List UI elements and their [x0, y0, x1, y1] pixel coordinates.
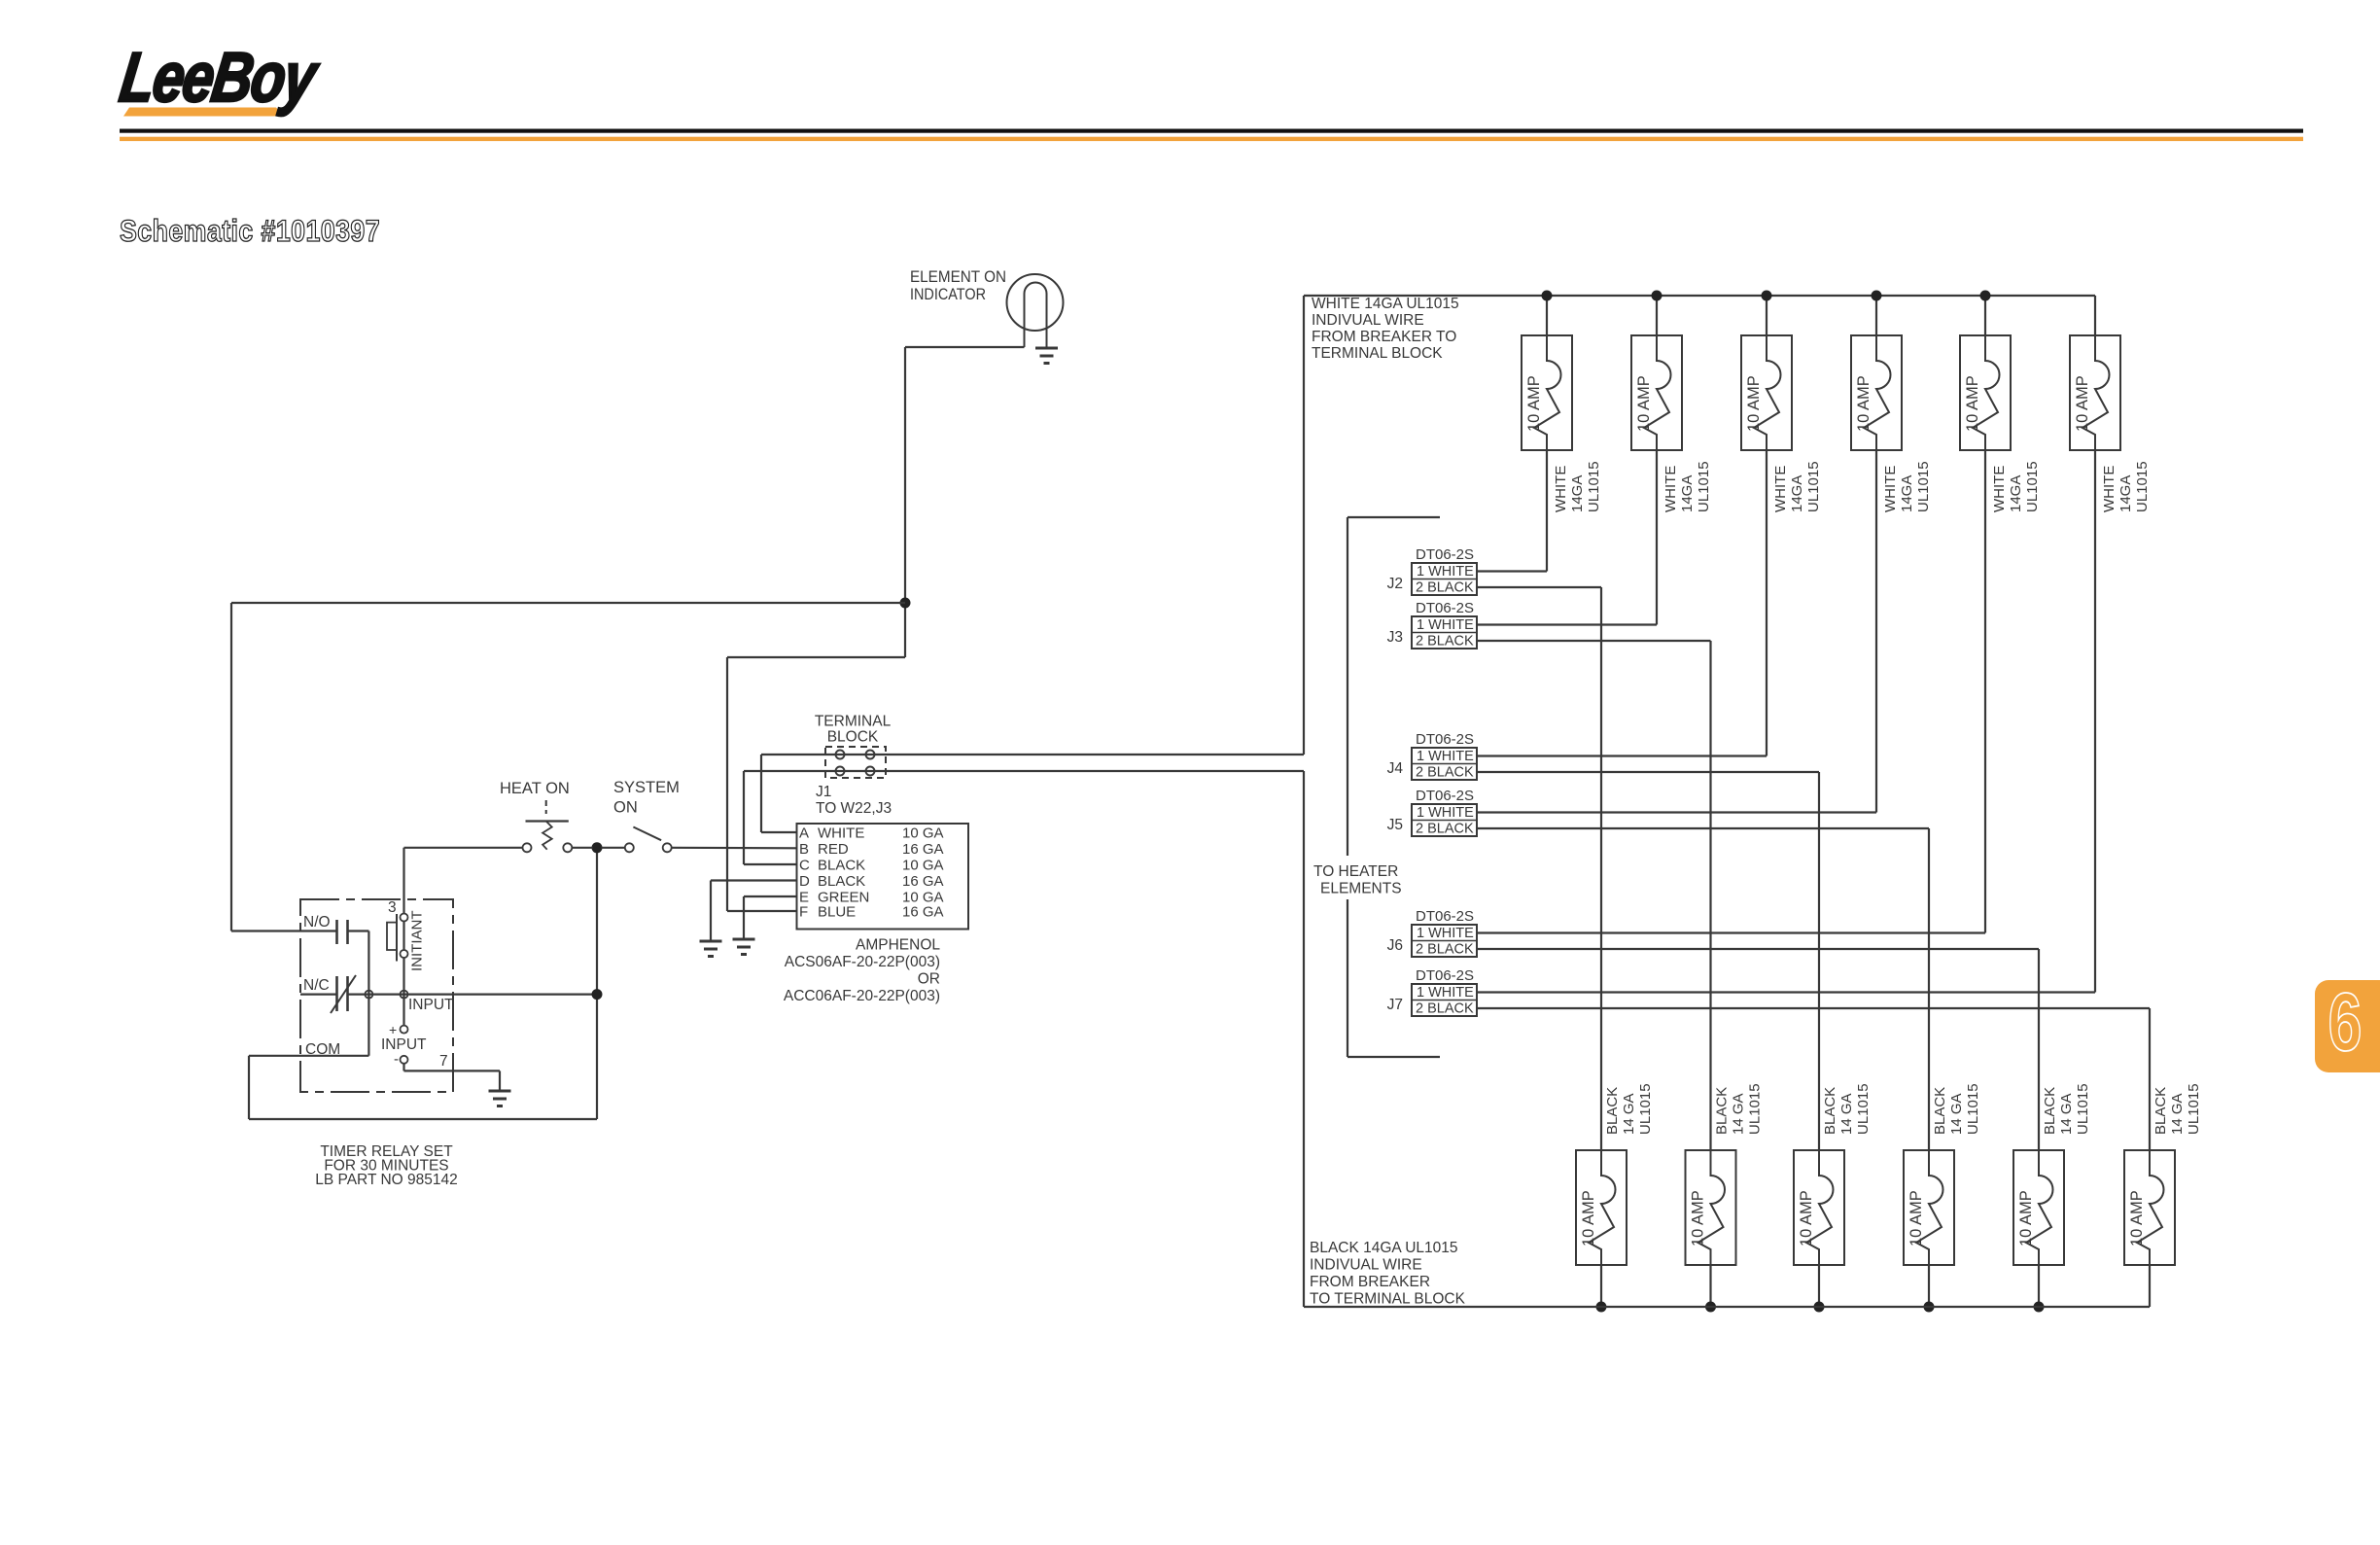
svg-text:16 GA: 16 GA	[902, 904, 944, 921]
svg-text:10 AMP: 10 AMP	[1525, 375, 1543, 432]
svg-text:WHITE: WHITE	[2101, 466, 2117, 512]
svg-text:J2: J2	[1387, 576, 1403, 592]
svg-text:LeeBoy: LeeBoy	[116, 38, 324, 116]
wire J5 pin2 horizontal	[1477, 827, 1929, 829]
svg-text:1 WHITE: 1 WHITE	[1417, 749, 1474, 764]
wire CB9 to black bus	[1818, 1265, 1820, 1307]
svg-text:10 AMP: 10 AMP	[1580, 1190, 1597, 1247]
svg-text:UL1015: UL1015	[1915, 461, 1932, 512]
contact N/O	[335, 920, 338, 944]
wire pin D	[711, 879, 797, 881]
wire CB5 down to J6 pin1	[1984, 450, 1986, 933]
connector J7 DT06-2S	[1387, 967, 1477, 1017]
svg-text:WHITE 14GA UL1015: WHITE 14GA UL1015	[1312, 296, 1459, 312]
wire white top bus	[1304, 295, 2095, 297]
svg-text:WHITE: WHITE	[1662, 466, 1679, 512]
breaker CB8 10 AMP (black)	[1686, 1150, 1736, 1265]
LeeBoy logo swoosh	[123, 108, 284, 117]
node bus CB4	[1872, 291, 1882, 301]
page tab 6	[2315, 980, 2380, 1072]
breaker CB7 10 AMP (black)	[1576, 1150, 1627, 1265]
svg-text:WHITE: WHITE	[1772, 466, 1789, 512]
svg-text:J1: J1	[816, 784, 831, 800]
wire CB2 down to J3 pin1	[1656, 450, 1658, 625]
N/C slash	[331, 975, 356, 1013]
wire J2 pin1 horizontal	[1477, 570, 1547, 572]
wire heat-on left	[404, 847, 523, 849]
wire bus to CB3	[1766, 296, 1767, 335]
svg-text:INDIVUAL WIRE: INDIVUAL WIRE	[1312, 312, 1424, 329]
svg-text:BLACK 14GA UL1015: BLACK 14GA UL1015	[1310, 1240, 1458, 1256]
header orange rule	[120, 137, 2303, 141]
breaker CB10 10 AMP (black)	[1904, 1150, 1954, 1265]
svg-text:UL1015: UL1015	[1855, 1083, 1872, 1135]
wire J3 pin2 horizontal	[1477, 640, 1711, 642]
svg-text:10 AMP: 10 AMP	[1798, 1190, 1815, 1247]
wire lamp to vertical	[905, 346, 1025, 348]
svg-text:10 AMP: 10 AMP	[1855, 375, 1872, 432]
wire J4 pin1 horizontal	[1477, 755, 1767, 756]
node bus CB3	[1762, 291, 1772, 301]
junction circle INPUT pin	[401, 991, 408, 999]
svg-text:J6: J6	[1387, 937, 1403, 954]
svg-text:INDIVUAL WIRE: INDIVUAL WIRE	[1310, 1257, 1422, 1274]
node black bus CB11	[2034, 1302, 2045, 1313]
svg-text:ELEMENT ON: ELEMENT ON	[910, 268, 1006, 286]
svg-text:DT06-2S: DT06-2S	[1416, 731, 1474, 748]
wire white bus left drop	[1303, 296, 1305, 755]
svg-text:1 WHITE: 1 WHITE	[1417, 985, 1474, 1001]
svg-text:DT06-2S: DT06-2S	[1416, 600, 1474, 616]
wire tb to pin C	[743, 771, 745, 864]
wire J6 pin2 horizontal	[1477, 948, 2039, 950]
wire left vertical x238	[230, 603, 232, 931]
svg-text:C: C	[799, 858, 810, 874]
svg-text:DT06-2S: DT06-2S	[1416, 546, 1474, 563]
svg-text:B: B	[799, 841, 809, 858]
wire vertical x931	[904, 347, 906, 657]
wire to pin F	[727, 910, 797, 912]
svg-text:UL1015: UL1015	[1965, 1083, 1981, 1135]
breaker CB11 10 AMP (black)	[2013, 1150, 2064, 1265]
svg-text:10 GA: 10 GA	[902, 858, 944, 874]
svg-text:LB PART NO 985142: LB PART NO 985142	[315, 1172, 457, 1188]
svg-text:2 BLACK: 2 BLACK	[1416, 942, 1474, 958]
wire CB10 to black bus	[1928, 1265, 1930, 1307]
svg-text:ON: ON	[613, 799, 638, 817]
wire J2 pin2 down to CB7	[1600, 587, 1602, 1150]
wire J7 pin1 horizontal	[1477, 991, 2095, 993]
wire COM row	[249, 1055, 368, 1057]
svg-text:INITIANT: INITIANT	[409, 911, 426, 972]
svg-text:J5: J5	[1387, 817, 1403, 833]
wire J3 pin2 down to CB8	[1709, 641, 1711, 1150]
node bus CB1	[1542, 291, 1553, 301]
svg-text:SYSTEM: SYSTEM	[613, 779, 680, 796]
tb pin	[866, 767, 875, 776]
switch blade	[633, 827, 661, 841]
wire CB6 down to J7 pin1	[2094, 450, 2096, 993]
svg-text:14 GA: 14 GA	[1621, 1093, 1637, 1135]
svg-text:BLACK: BLACK	[1714, 1087, 1731, 1135]
svg-text:1 WHITE: 1 WHITE	[1417, 926, 1474, 941]
svg-text:14GA: 14GA	[1679, 475, 1696, 512]
svg-text:BLACK: BLACK	[818, 873, 865, 890]
breaker CB6 10 AMP (white)	[2070, 335, 2120, 450]
breaker CB1 10 AMP (white)	[1522, 335, 1572, 450]
node black bus CB9	[1814, 1302, 1825, 1313]
wire node to system-on	[602, 847, 625, 849]
wire CB1 down to J2 pin1	[1546, 450, 1548, 572]
svg-text:7: 7	[439, 1053, 448, 1070]
breaker CB4 10 AMP (white)	[1851, 335, 1902, 450]
wire CB3 down to J4 pin1	[1766, 450, 1767, 756]
svg-text:UL1015: UL1015	[1747, 1083, 1764, 1135]
wire vertical x614	[596, 848, 598, 1119]
svg-text:BLOCK: BLOCK	[827, 729, 879, 746]
svg-text:14GA: 14GA	[2117, 475, 2134, 512]
connector J3 DT06-2S	[1387, 600, 1477, 650]
svg-text:UL1015: UL1015	[2134, 461, 2151, 512]
wire long horizontal y620	[231, 602, 905, 604]
svg-text:BLACK: BLACK	[1822, 1087, 1838, 1135]
svg-text:TERMINAL: TERMINAL	[815, 714, 892, 730]
wire J6 pin2 down to CB11	[2038, 949, 2040, 1150]
wire to N/O	[231, 930, 337, 931]
svg-text:DT06-2S: DT06-2S	[1416, 908, 1474, 925]
tb pin	[836, 767, 845, 776]
svg-text:BLACK: BLACK	[2042, 1087, 2058, 1135]
svg-text:2 BLACK: 2 BLACK	[1416, 765, 1474, 781]
svg-text:10 AMP: 10 AMP	[1964, 375, 1981, 432]
header black rule	[120, 129, 2303, 133]
wire bus to CB1	[1546, 296, 1548, 335]
svg-text:TO TERMINAL BLOCK: TO TERMINAL BLOCK	[1310, 1291, 1466, 1308]
wire black bottom bus	[1304, 1306, 2150, 1308]
wire bus to CB5	[1984, 296, 1986, 335]
wire N/C left stub	[300, 993, 337, 995]
wire black tb row	[744, 770, 1304, 772]
svg-text:Schematic #1010397: Schematic #1010397	[120, 215, 380, 248]
svg-text:UL1015: UL1015	[1637, 1083, 1654, 1135]
svg-text:BLACK: BLACK	[1932, 1087, 1948, 1135]
svg-text:DT06-2S: DT06-2S	[1416, 788, 1474, 804]
wire bus to CB4	[1875, 296, 1877, 335]
svg-text:RED: RED	[818, 841, 849, 858]
bracket TO HEATER ELEMENTS	[1347, 517, 1348, 856]
wire CB4 down to J5 pin1	[1875, 450, 1877, 813]
ground relay	[489, 1091, 511, 1106]
connector J6 DT06-2S	[1387, 908, 1477, 958]
svg-text:14GA: 14GA	[1569, 475, 1586, 512]
svg-text:TO HEATER: TO HEATER	[1313, 863, 1398, 880]
svg-text:DT06-2S: DT06-2S	[1416, 967, 1474, 984]
svg-text:BLACK: BLACK	[1604, 1087, 1621, 1135]
svg-text:10 GA: 10 GA	[902, 825, 944, 842]
svg-text:TERMINAL BLOCK: TERMINAL BLOCK	[1312, 345, 1443, 362]
wire bus to CB2	[1656, 296, 1658, 335]
wire J7 pin2 horizontal	[1477, 1007, 2150, 1009]
svg-text:16 GA: 16 GA	[902, 873, 944, 890]
svg-text:ELEMENTS: ELEMENTS	[1320, 881, 1402, 897]
svg-text:INPUT: INPUT	[408, 997, 454, 1013]
svg-text:FROM BREAKER TO: FROM BREAKER TO	[1312, 329, 1456, 345]
svg-text:14 GA: 14 GA	[1948, 1093, 1965, 1135]
svg-text:N/O: N/O	[303, 914, 331, 931]
svg-text:2 BLACK: 2 BLACK	[1416, 822, 1474, 837]
breaker CB3 10 AMP (white)	[1741, 335, 1792, 450]
wire J4 pin2 down to CB9	[1818, 772, 1820, 1150]
tb pin	[866, 751, 875, 759]
svg-text:10 AMP: 10 AMP	[1745, 375, 1763, 432]
svg-text:10 AMP: 10 AMP	[1635, 375, 1653, 432]
node black bus CB7	[1596, 1302, 1607, 1313]
junction circle on common	[365, 991, 372, 999]
connector J4 DT06-2S	[1387, 731, 1477, 781]
svg-text:N/C: N/C	[303, 977, 330, 994]
svg-text:UL1015: UL1015	[2024, 461, 2041, 512]
wire N/C row to node	[348, 993, 598, 995]
svg-text:14GA: 14GA	[1789, 475, 1805, 512]
svg-text:14 GA: 14 GA	[2169, 1093, 2186, 1135]
svg-text:WHITE: WHITE	[1553, 466, 1569, 512]
svg-text:6: 6	[2327, 976, 2362, 1068]
wire white tb row	[761, 754, 1304, 755]
svg-text:ACC06AF-20-22P(003): ACC06AF-20-22P(003)	[784, 988, 940, 1004]
node black bus CB8	[1705, 1302, 1716, 1313]
wire bus to CB6	[2094, 296, 2096, 335]
svg-text:14 GA: 14 GA	[2058, 1093, 2075, 1135]
contact N/C	[335, 976, 338, 1011]
node system-on junction	[592, 842, 603, 853]
wire black bus left riser	[1303, 771, 1305, 1307]
svg-text:J7: J7	[1387, 997, 1403, 1013]
svg-text:10 AMP: 10 AMP	[2128, 1190, 2146, 1247]
wire J5 pin2 down to CB10	[1928, 828, 1930, 1150]
wire CB8 to black bus	[1709, 1265, 1711, 1307]
node input junction	[592, 989, 603, 1000]
svg-text:D: D	[799, 873, 810, 890]
connector J1	[797, 824, 969, 930]
node black bus CB10	[1924, 1302, 1935, 1313]
push button INITIANT pin 3	[402, 848, 404, 914]
wire vertical x748 to pin F	[726, 657, 728, 911]
wire lamp drop horizontal	[727, 656, 905, 658]
svg-text:WHITE: WHITE	[818, 825, 864, 842]
svg-text:BLACK: BLACK	[818, 858, 865, 874]
svg-text:3: 3	[388, 899, 397, 916]
wire J3 pin1 horizontal	[1477, 623, 1657, 625]
terminal block TB1	[825, 747, 886, 778]
svg-text:FROM BREAKER: FROM BREAKER	[1310, 1274, 1430, 1290]
svg-text:J4: J4	[1387, 760, 1404, 777]
svg-text:10 AMP: 10 AMP	[1690, 1190, 1707, 1247]
wire CB7 to black bus	[1600, 1265, 1602, 1307]
svg-text:1 WHITE: 1 WHITE	[1417, 805, 1474, 821]
svg-text:14GA: 14GA	[1899, 475, 1915, 512]
svg-text:2 BLACK: 2 BLACK	[1416, 634, 1474, 650]
svg-text:16 GA: 16 GA	[902, 841, 944, 858]
wire tb to pin A	[760, 755, 762, 832]
svg-text:2 BLACK: 2 BLACK	[1416, 580, 1474, 596]
svg-text:A: A	[799, 825, 809, 842]
svg-text:UL1015: UL1015	[1586, 461, 1602, 512]
wire pin7	[402, 1064, 404, 1071]
svg-text:INPUT: INPUT	[381, 1036, 427, 1053]
wire N/O to common	[348, 930, 369, 931]
svg-text:ACS06AF-20-22P(003): ACS06AF-20-22P(003)	[785, 954, 940, 970]
button actuator bar	[396, 914, 398, 962]
svg-text:1 WHITE: 1 WHITE	[1417, 564, 1474, 579]
svg-text:10 AMP: 10 AMP	[1907, 1190, 1925, 1247]
svg-text:2 BLACK: 2 BLACK	[1416, 1001, 1474, 1017]
tb pin	[836, 751, 845, 759]
svg-text:UL1015: UL1015	[2186, 1083, 2202, 1135]
svg-text:AMPHENOL: AMPHENOL	[856, 937, 940, 954]
svg-text:UL1015: UL1015	[2075, 1083, 2091, 1135]
wire COM bottom horizontal	[249, 1118, 597, 1120]
svg-text:10 AMP: 10 AMP	[2074, 375, 2091, 432]
wire J6 pin1 horizontal	[1477, 931, 1985, 933]
lamp L1 ELEMENT ON INDICATOR	[1007, 274, 1064, 331]
svg-text:-: -	[394, 1051, 399, 1068]
breaker CB12 10 AMP (black)	[2124, 1150, 2175, 1265]
svg-text:10 AMP: 10 AMP	[2017, 1190, 2035, 1247]
pin +INPUT	[401, 1026, 408, 1034]
svg-text:BLUE: BLUE	[818, 904, 856, 921]
ground pin D	[700, 941, 722, 957]
svg-text:WHITE: WHITE	[1882, 466, 1899, 512]
svg-text:J3: J3	[1387, 629, 1403, 646]
wire pin E	[744, 895, 797, 897]
wire J7 pin2 down to CB12	[2149, 1008, 2151, 1150]
breaker CB9 10 AMP (black)	[1794, 1150, 1844, 1265]
ground lamp	[1035, 348, 1058, 364]
svg-text:+: +	[389, 1022, 397, 1037]
wire relay common vertical	[367, 931, 369, 1056]
wire system-on to pin B	[672, 847, 797, 850]
svg-text:14GA: 14GA	[2008, 475, 2024, 512]
connector J2 DT06-2S	[1387, 546, 1477, 596]
svg-text:UL1015: UL1015	[1696, 461, 1712, 512]
node bus CB2	[1652, 291, 1662, 301]
node bus CB5	[1980, 291, 1991, 301]
wire J5 pin1 horizontal	[1477, 811, 1876, 813]
svg-text:OR: OR	[918, 971, 940, 988]
timer relay K1 dash-dot box	[300, 899, 453, 1092]
svg-text:14 GA: 14 GA	[1838, 1093, 1855, 1135]
wire CB11 to black bus	[2038, 1265, 2040, 1307]
svg-text:14 GA: 14 GA	[1731, 1093, 1747, 1135]
svg-text:F: F	[799, 904, 808, 921]
svg-text:BLACK: BLACK	[2152, 1087, 2169, 1135]
wire heat-on to node	[572, 847, 592, 849]
breaker CB5 10 AMP (white)	[1960, 335, 2011, 450]
svg-text:UL1015: UL1015	[1805, 461, 1822, 512]
wire COM down	[248, 1056, 250, 1119]
pin -INPUT	[401, 1056, 408, 1064]
svg-text:INDICATOR: INDICATOR	[910, 286, 986, 303]
ground pin E	[733, 939, 755, 955]
node lamp/relay junction	[900, 598, 911, 609]
wire J4 pin2 horizontal	[1477, 771, 1819, 773]
breaker CB2 10 AMP (white)	[1631, 335, 1682, 450]
svg-text:WHITE: WHITE	[1991, 466, 2008, 512]
wire CB12 to black bus	[2149, 1265, 2151, 1307]
svg-text:HEAT ON: HEAT ON	[500, 780, 570, 797]
svg-text:TO W22,J3: TO W22,J3	[816, 800, 892, 817]
wire J2 pin2 horizontal	[1477, 586, 1601, 588]
svg-text:1 WHITE: 1 WHITE	[1417, 617, 1474, 633]
connector J5 DT06-2S	[1387, 788, 1477, 837]
